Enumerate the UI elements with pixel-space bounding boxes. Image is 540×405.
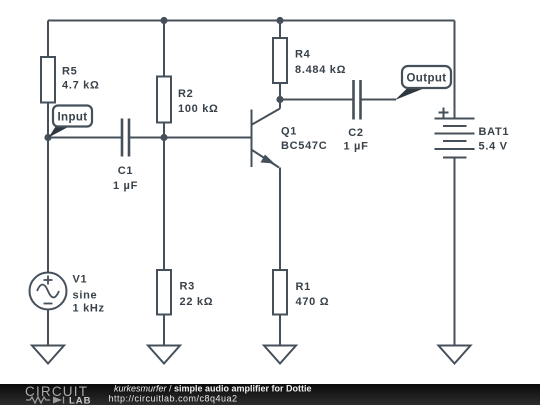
- svg-text:kurkesmurfer / simple audio am: kurkesmurfer / simple audio amplifier fo…: [114, 384, 312, 394]
- svg-text:sine: sine: [73, 290, 98, 302]
- svg-text:BC547C: BC547C: [281, 140, 327, 152]
- svg-text:R1: R1: [296, 281, 311, 293]
- svg-text:470 Ω: 470 Ω: [296, 296, 330, 308]
- svg-text:http://circuitlab.com/c8q4ua2: http://circuitlab.com/c8q4ua2: [109, 394, 238, 404]
- svg-text:C1: C1: [118, 165, 133, 177]
- svg-text:1 kHz: 1 kHz: [73, 303, 105, 315]
- svg-text:BAT1: BAT1: [479, 126, 510, 138]
- svg-text:Q1: Q1: [281, 126, 297, 138]
- svg-text:1 µF: 1 µF: [113, 180, 138, 192]
- svg-text:4.7 kΩ: 4.7 kΩ: [62, 80, 100, 92]
- svg-text:5.4 V: 5.4 V: [479, 141, 508, 153]
- svg-text:Input: Input: [57, 112, 87, 124]
- svg-text:Output: Output: [406, 73, 446, 85]
- svg-text:C2: C2: [348, 127, 363, 139]
- svg-text:8.484 kΩ: 8.484 kΩ: [295, 64, 346, 76]
- svg-text:LAB: LAB: [69, 396, 92, 405]
- svg-text:R4: R4: [295, 49, 311, 61]
- svg-text:100 kΩ: 100 kΩ: [178, 103, 219, 115]
- svg-text:R5: R5: [62, 66, 77, 78]
- svg-text:R3: R3: [180, 281, 195, 293]
- svg-text:1 µF: 1 µF: [343, 141, 368, 153]
- svg-text:R2: R2: [178, 88, 193, 100]
- svg-text:V1: V1: [73, 274, 88, 286]
- svg-text:22 kΩ: 22 kΩ: [180, 296, 214, 308]
